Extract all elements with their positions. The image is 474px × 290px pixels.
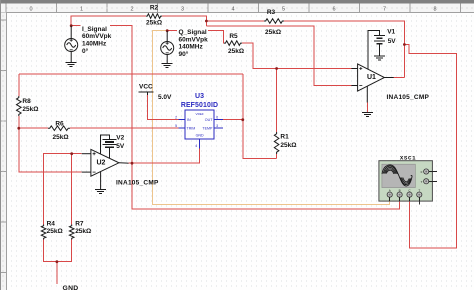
voltage reference U3 box [178, 110, 223, 149]
oscilloscope right terminals [421, 169, 437, 184]
wire long horizontal feedback to R8 top [19, 73, 243, 75]
wire R8 top lead [18, 74, 20, 96]
junction dots [70, 24, 73, 27]
svg-text:2: 2 [130, 7, 133, 13]
svg-text:5V: 5V [388, 38, 397, 45]
svg-text:V2: V2 [116, 135, 124, 142]
svg-text:T: T [421, 180, 423, 184]
svg-text:U1: U1 [367, 74, 376, 81]
svg-text:INA105_CMP: INA105_CMP [387, 94, 430, 101]
wire R1 top lead to R5 junction [276, 69, 278, 133]
wire lower bypass to U1 inverting input [206, 26, 351, 86]
svg-text:8: 8 [433, 7, 436, 13]
svg-text:R8: R8 [22, 98, 31, 105]
VCC symbol [139, 92, 154, 95]
svg-text:90°: 90° [179, 50, 189, 58]
ac source I_Signal [65, 26, 78, 63]
svg-text:25kΩ: 25kΩ [265, 29, 281, 36]
oscilloscope bottom terminals [387, 189, 422, 202]
wire U3 OUT column down to R1 bottom [243, 74, 277, 159]
ground below V1 [374, 56, 385, 60]
svg-text:25kΩ: 25kΩ [52, 134, 68, 141]
left ruler column [0, 13, 7, 290]
wire U1 output junction to scope channel B [404, 45, 456, 249]
svg-text:R7: R7 [75, 221, 84, 228]
resistor R5 zigzag [224, 41, 242, 46]
svg-text:R2: R2 [150, 5, 159, 12]
wire Q_Signal to R5 [167, 31, 224, 43]
wire I_Signal branch down long column to scope channel A [71, 26, 399, 210]
wire R6 line left segment [19, 127, 48, 129]
svg-text:U2: U2 [97, 160, 106, 167]
wire to GND label [56, 262, 58, 284]
svg-text:TEMP: TEMP [202, 127, 213, 131]
svg-text:OUT: OUT [205, 118, 213, 122]
svg-text:GND: GND [63, 285, 79, 290]
svg-text:GND: GND [196, 133, 204, 137]
ground for I_Signal [66, 63, 77, 67]
wire I_Signal top to R2 [71, 16, 146, 26]
svg-text:A: A [389, 189, 391, 193]
battery V2 [101, 135, 117, 154]
wire R2 right to jog junction [162, 16, 206, 26]
wire orange Q_Signal to scope G terminal [153, 31, 390, 205]
svg-text:V1: V1 [387, 29, 395, 36]
svg-text:TRIM: TRIM [187, 127, 196, 131]
svg-text:5: 5 [175, 124, 177, 128]
svg-text:4: 4 [231, 7, 234, 13]
resistor R4 zigzag [41, 225, 46, 240]
svg-text:T: T [418, 189, 420, 193]
op-amp U2 [82, 147, 129, 189]
svg-text:R3: R3 [267, 9, 276, 16]
ac source Q_Signal [161, 31, 174, 64]
wire R5 right to U1 non-inverting input [242, 43, 351, 68]
svg-text:IN: IN [187, 118, 191, 122]
wire jog to R3 left [206, 20, 264, 22]
svg-text:25kΩ: 25kΩ [146, 20, 162, 27]
svg-text:R4: R4 [47, 221, 56, 228]
svg-text:REF5010ID: REF5010ID [181, 102, 218, 109]
svg-text:2: 2 [175, 116, 177, 120]
svg-text:0°: 0° [82, 47, 89, 55]
svg-text:5V: 5V [116, 143, 125, 150]
svg-text:3: 3 [216, 124, 218, 128]
svg-text:B: B [399, 189, 401, 193]
svg-text:6: 6 [216, 116, 218, 120]
wire R6 right to U3 TRIM pin [70, 127, 178, 129]
svg-text:R5: R5 [229, 33, 238, 40]
svg-text:R6: R6 [55, 120, 64, 127]
svg-text:4: 4 [195, 144, 197, 148]
svg-text:25kΩ: 25kΩ [228, 48, 244, 55]
svg-text:7: 7 [383, 7, 386, 13]
svg-text:Q_Signal: Q_Signal [179, 29, 207, 36]
ground for Q_Signal [162, 63, 173, 67]
svg-text:5.0V: 5.0V [158, 94, 172, 101]
svg-text:1: 1 [80, 7, 83, 13]
battery V1 [368, 31, 385, 56]
wire U1 negative supply red segment [366, 103, 368, 113]
svg-text:0: 0 [29, 7, 32, 13]
svg-text:5: 5 [282, 7, 285, 13]
resistor R1 zigzag [274, 132, 279, 154]
op-amp U1 [351, 52, 393, 103]
resistor R8 zigzag [17, 96, 22, 116]
resistor R3 zigzag [264, 19, 284, 24]
svg-text:25kΩ: 25kΩ [47, 228, 63, 235]
wire R3 right to U1 output column [284, 21, 404, 78]
svg-text:U3: U3 [195, 93, 204, 100]
wire U2 output to U3 GND pin [129, 148, 200, 163]
resistor R2 zigzag [146, 14, 162, 19]
wire R8 bottom to U2 inverting input [19, 116, 82, 172]
wire R4 R7 bottoms joined [44, 240, 72, 262]
top title bar [0, 0, 474, 4]
label Q_Signal [177, 28, 208, 35]
wire VCC to U3 IN pin [148, 95, 179, 120]
wire U1 output to junction column [394, 77, 405, 79]
svg-text:VCC: VCC [139, 84, 153, 91]
wire R7 branch [71, 154, 73, 225]
svg-text:25kΩ: 25kΩ [280, 142, 296, 149]
oscilloscope XSC1 body [379, 161, 433, 201]
svg-text:I_Signal: I_Signal [82, 26, 107, 33]
wire U2 non-inverting input to R4 R7 [44, 154, 82, 225]
wire R1 bottom lead [276, 154, 278, 159]
svg-text:140MHz: 140MHz [179, 44, 204, 51]
svg-text:60mVVpk: 60mVVpk [82, 33, 112, 40]
resistor R7 zigzag [69, 225, 74, 240]
svg-text:140MHz: 140MHz [82, 41, 107, 48]
svg-text:3: 3 [181, 7, 184, 13]
resistor R6 zigzag [48, 126, 70, 131]
svg-text:XSC1: XSC1 [400, 154, 416, 161]
svg-text:25kΩ: 25kΩ [75, 228, 91, 235]
svg-text:25kΩ: 25kΩ [22, 106, 38, 113]
svg-text:VREF: VREF [196, 112, 204, 116]
svg-text:R1: R1 [280, 134, 289, 141]
ground below U2 [95, 190, 106, 194]
oscilloscope trigger stub [418, 201, 420, 204]
svg-text:60mVVpk: 60mVVpk [179, 36, 209, 43]
oscilloscope waveform [382, 165, 412, 186]
ground below U1 [362, 113, 373, 117]
wire U3 OUT to junction [223, 119, 243, 121]
svg-text:6: 6 [332, 7, 335, 13]
svg-text:INA105_CMP: INA105_CMP [116, 180, 159, 187]
label I_Signal [81, 25, 111, 32]
